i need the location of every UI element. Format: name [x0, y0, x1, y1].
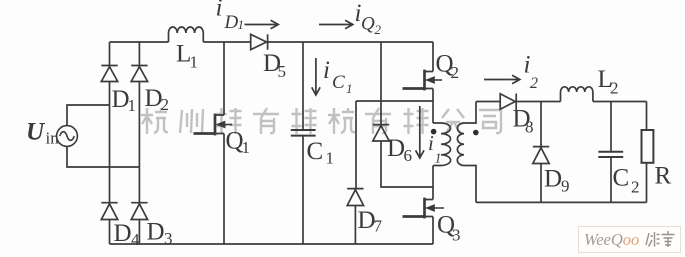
svg-text:D: D	[114, 220, 132, 247]
svg-text:2: 2	[161, 95, 170, 114]
svg-text:1: 1	[346, 81, 353, 96]
svg-text:D: D	[544, 166, 562, 193]
svg-text:C: C	[307, 138, 324, 165]
svg-text:U: U	[26, 119, 46, 146]
svg-text:1: 1	[238, 17, 245, 32]
svg-text:2: 2	[631, 178, 640, 197]
svg-text:i: i	[323, 57, 330, 84]
svg-text:i: i	[428, 131, 434, 155]
svg-text:2: 2	[610, 79, 619, 98]
svg-text:7: 7	[374, 217, 383, 236]
svg-text:D: D	[387, 135, 405, 162]
svg-text:D: D	[147, 219, 165, 246]
svg-text:8: 8	[525, 118, 534, 137]
svg-text:2: 2	[451, 63, 460, 82]
svg-text:2: 2	[375, 22, 382, 37]
svg-text:R: R	[655, 163, 672, 190]
svg-text:in: in	[46, 129, 60, 148]
svg-text:Q: Q	[361, 14, 375, 35]
svg-text:3: 3	[164, 229, 173, 248]
svg-text:WeeQoo: WeeQoo	[584, 230, 639, 249]
svg-text:5: 5	[278, 62, 287, 81]
svg-text:9: 9	[561, 177, 570, 196]
svg-text:1: 1	[326, 149, 335, 168]
svg-text:1: 1	[242, 138, 251, 157]
svg-text:1: 1	[435, 152, 442, 167]
svg-text:1: 1	[128, 96, 137, 115]
svg-text:6: 6	[404, 146, 413, 165]
svg-text:2: 2	[530, 75, 538, 92]
svg-text:4: 4	[131, 230, 140, 249]
svg-text:1: 1	[190, 53, 199, 72]
svg-text:D: D	[224, 12, 239, 33]
svg-text:C: C	[613, 165, 630, 192]
svg-text:i: i	[216, 0, 223, 22]
svg-text:C: C	[332, 72, 345, 93]
svg-text:3: 3	[452, 226, 461, 245]
